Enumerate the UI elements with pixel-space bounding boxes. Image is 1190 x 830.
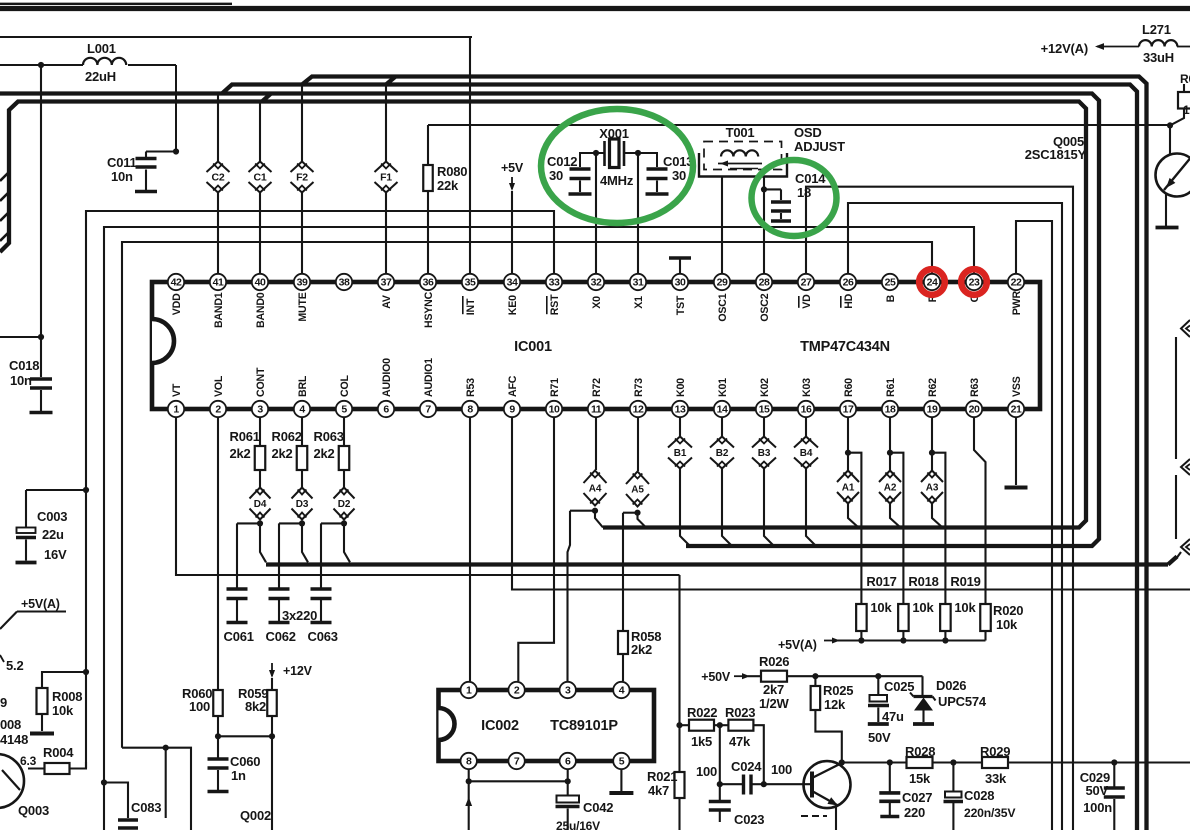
- ground IC002 pin5: [609, 769, 633, 793]
- IC001 pin 19 (R62): [924, 378, 940, 417]
- resistor R062: [272, 417, 308, 470]
- power +5V pin34: [501, 161, 524, 274]
- svg-text:B4: B4: [800, 448, 813, 459]
- capacitor C023: [709, 784, 764, 827]
- connector A2: [879, 453, 901, 528]
- power +5V(A) left: [0, 597, 66, 629]
- svg-text:18: 18: [885, 404, 896, 416]
- connector B3: [752, 417, 776, 469]
- capacitor C061: [224, 589, 254, 644]
- annotation green ellipse X001: [541, 109, 693, 223]
- svg-text:100n: 100n: [1083, 800, 1112, 815]
- connector B4: [794, 417, 818, 469]
- svg-text:6.3: 6.3: [20, 754, 37, 768]
- capacitor C024: [696, 759, 792, 795]
- wire VDD feed: [0, 62, 176, 152]
- wire Q005 base node: [1167, 122, 1173, 154]
- svg-text:7: 7: [514, 756, 520, 768]
- svg-text:TST: TST: [675, 295, 687, 315]
- svg-text:16V: 16V: [44, 547, 67, 562]
- wire B2 to bus: [722, 469, 732, 547]
- connector B1: [668, 417, 692, 469]
- svg-text:30: 30: [549, 168, 563, 183]
- svg-text:2k7: 2k7: [763, 682, 784, 697]
- svg-text:R026: R026: [759, 654, 789, 669]
- wire R net loop: [122, 242, 932, 748]
- svg-text:R061: R061: [230, 429, 260, 444]
- IC001 pin 38 (nc): [336, 274, 352, 290]
- label Q002: [240, 808, 271, 823]
- power +12V(A): [1041, 41, 1139, 56]
- svg-text:R53: R53: [465, 378, 477, 397]
- svg-text:K01: K01: [717, 378, 729, 397]
- power +5V(A) rail: [778, 637, 986, 652]
- IC001 pin 1 (VT): [168, 383, 184, 417]
- svg-text:+5V: +5V: [501, 161, 524, 175]
- svg-text:TC89101P: TC89101P: [550, 718, 618, 734]
- IC001 pin 6 (AUDIO0): [378, 358, 394, 417]
- svg-text:AUDIO1: AUDIO1: [423, 358, 435, 397]
- svg-text:1k5: 1k5: [691, 734, 712, 749]
- svg-text:8k2: 8k2: [245, 699, 266, 714]
- svg-text:R73: R73: [633, 378, 645, 397]
- annotation red circle pin 24: [919, 269, 945, 295]
- capacitor C062: [266, 589, 296, 644]
- svg-text:R008: R008: [52, 689, 82, 704]
- wire R080 to Q005 base net: [428, 124, 1170, 126]
- svg-text:22uH: 22uH: [85, 69, 116, 84]
- label OSD ADJUST: [794, 125, 845, 154]
- svg-text:19: 19: [927, 404, 938, 416]
- svg-text:B: B: [885, 294, 897, 302]
- wire node C018: [0, 65, 44, 377]
- svg-text:R63: R63: [969, 378, 981, 397]
- svg-text:C060: C060: [230, 754, 260, 769]
- resistor R020: [980, 603, 1023, 641]
- IC001 pin 8 (R53): [462, 378, 478, 417]
- svg-text:BAND0: BAND0: [255, 292, 267, 328]
- svg-text:C083: C083: [131, 800, 161, 815]
- IC001 pin 30 (TST): [672, 274, 688, 315]
- svg-text:D3: D3: [296, 499, 309, 510]
- wire node A5: [623, 510, 646, 631]
- svg-text:C003: C003: [37, 509, 67, 524]
- svg-text:CONT: CONT: [255, 367, 267, 397]
- svg-text:33: 33: [549, 277, 560, 289]
- wire off-page pin8: [465, 781, 472, 830]
- IC001 pin 7 (AUDIO1): [420, 358, 436, 417]
- capacitor C025: [868, 673, 914, 745]
- svg-text:15: 15: [759, 404, 770, 416]
- svg-text:3: 3: [565, 685, 571, 697]
- svg-text:100: 100: [189, 699, 210, 714]
- svg-text:AV: AV: [381, 295, 393, 309]
- capacitor C028: [944, 759, 1017, 830]
- wire node R022-R023: [714, 722, 728, 784]
- svg-text:24: 24: [927, 277, 938, 289]
- resistor R025: [811, 673, 854, 762]
- wire R008 node: [42, 669, 89, 688]
- wire video line: [887, 759, 907, 765]
- svg-text:T001: T001: [726, 125, 755, 140]
- IC001 pin 32 (X0): [588, 274, 604, 309]
- svg-text:K00: K00: [675, 378, 687, 397]
- wire stub: [1175, 475, 1177, 539]
- wire VD net: [806, 187, 1073, 830]
- resistor R061: [230, 417, 266, 470]
- svg-text:25: 25: [885, 277, 896, 289]
- svg-text:1: 1: [173, 404, 179, 416]
- svg-text:32: 32: [591, 277, 602, 289]
- IC001 pin 39 (MUTE): [294, 274, 310, 322]
- svg-text:1/2W: 1/2W: [759, 696, 789, 711]
- IC001 pin 23 (G): [966, 274, 982, 303]
- wire INT pin35: [469, 37, 471, 274]
- wire B4 to bus: [806, 469, 816, 547]
- wire bus hatches left edge: [0, 172, 9, 241]
- svg-text:A3: A3: [926, 483, 939, 494]
- svg-text:5: 5: [619, 756, 625, 768]
- svg-text:Q002: Q002: [240, 808, 271, 823]
- wire R63 pin20: [974, 417, 986, 604]
- svg-text:7: 7: [425, 404, 431, 416]
- svg-text:R028: R028: [905, 744, 935, 759]
- wire C2 stub: [217, 94, 219, 275]
- wire R71 pin10 to IC002 pin2: [518, 417, 554, 681]
- wire R62 pin19 node: [929, 417, 946, 604]
- svg-text:BAND1: BAND1: [213, 292, 225, 328]
- resistor R023: [725, 705, 764, 784]
- label 5.2: [0, 655, 23, 673]
- wire node D2: [321, 520, 350, 588]
- svg-text:17: 17: [843, 404, 854, 416]
- svg-text:2k2: 2k2: [272, 446, 293, 461]
- transistor Q005: [1025, 134, 1190, 226]
- svg-text:+12V(A): +12V(A): [1041, 41, 1088, 56]
- IC001 pin 13 (K00): [672, 378, 688, 417]
- svg-text:HSYNC: HSYNC: [423, 291, 435, 328]
- svg-text:10k: 10k: [870, 600, 892, 615]
- resistor R008: [30, 688, 82, 734]
- svg-text:B2: B2: [716, 448, 729, 459]
- resistor R058: [618, 629, 661, 681]
- svg-text:A5: A5: [631, 485, 644, 496]
- wire bus line C: [222, 85, 1137, 830]
- svg-text:IC002: IC002: [481, 718, 519, 734]
- svg-text:23: 23: [969, 277, 980, 289]
- svg-text:100: 100: [696, 764, 717, 779]
- IC IC002 body: [439, 690, 655, 761]
- svg-text:INT: INT: [465, 298, 477, 315]
- svg-text:MUTE: MUTE: [297, 292, 309, 321]
- svg-text:9: 9: [509, 404, 515, 416]
- label 9 008 4148: [0, 695, 28, 747]
- svg-text:4: 4: [299, 404, 305, 416]
- IC001 pin 31 (X1): [630, 274, 646, 309]
- svg-text:VDD: VDD: [171, 293, 183, 315]
- svg-text:5: 5: [341, 404, 347, 416]
- IC001 pin 18 (R61): [882, 378, 898, 417]
- wire node D4: [237, 520, 266, 588]
- IC001 pin 24 (R): [924, 274, 940, 303]
- wire RST net loop: [86, 211, 554, 768]
- svg-text:AFC: AFC: [507, 375, 519, 397]
- resistor R022: [680, 705, 718, 749]
- svg-text:37: 37: [381, 277, 392, 289]
- ground VSS pin21: [1005, 417, 1028, 488]
- wire bus line A: [0, 94, 1099, 547]
- resistor R080: [423, 125, 467, 274]
- svg-text:22: 22: [1011, 277, 1022, 289]
- wire F2 stub: [301, 85, 303, 275]
- svg-text:R022: R022: [687, 705, 717, 720]
- svg-text:D4: D4: [254, 499, 267, 510]
- svg-text:10n: 10n: [111, 169, 133, 184]
- svg-text:6: 6: [565, 756, 571, 768]
- diode D026: [910, 676, 987, 724]
- svg-text:C028: C028: [964, 788, 994, 803]
- svg-text:3: 3: [257, 404, 263, 416]
- resistor R060: [182, 686, 223, 758]
- wire B1 to bus: [680, 469, 690, 547]
- capacitor C083: [101, 779, 161, 828]
- svg-text:R062: R062: [272, 429, 302, 444]
- wire bus line D: [302, 77, 1147, 830]
- svg-text:5.2: 5.2: [6, 658, 23, 673]
- svg-text:41: 41: [213, 277, 224, 289]
- IC001 pin 33 (RST): [546, 274, 562, 315]
- IC002 pin 4: [613, 682, 629, 698]
- resistor R018: [898, 574, 939, 644]
- svg-text:2k2: 2k2: [314, 446, 335, 461]
- svg-text:29: 29: [717, 277, 728, 289]
- svg-text:BRL: BRL: [297, 375, 309, 397]
- connector F1: [375, 162, 398, 193]
- svg-text:2SC1815Y: 2SC1815Y: [1025, 147, 1087, 162]
- svg-text:C061: C061: [224, 629, 254, 644]
- svg-text:35: 35: [465, 277, 476, 289]
- svg-text:2: 2: [215, 404, 221, 416]
- wire R060-R059: [218, 733, 275, 830]
- svg-text:R0: R0: [1180, 72, 1190, 86]
- IC001 pin 41 (BAND1): [210, 274, 226, 328]
- svg-text:C012: C012: [547, 154, 577, 169]
- svg-text:C024: C024: [731, 759, 762, 774]
- svg-text:C011: C011: [107, 155, 137, 170]
- svg-text:OSC2: OSC2: [759, 293, 771, 321]
- svg-text:K02: K02: [759, 378, 771, 397]
- resistor R063: [314, 417, 350, 470]
- transistor Q004: [764, 761, 851, 830]
- IC001 pin 16 (K03): [798, 378, 814, 417]
- power +12V R059: [269, 663, 313, 690]
- svg-text:10n: 10n: [10, 373, 32, 388]
- svg-text:42: 42: [171, 277, 182, 289]
- IC001 pin 9 (AFC): [504, 375, 520, 417]
- wire stub: [1177, 552, 1181, 558]
- svg-text:R61: R61: [885, 378, 897, 397]
- wire G net loop: [104, 227, 974, 830]
- connector right edge 2: [1181, 459, 1190, 475]
- svg-text:R023: R023: [725, 705, 755, 720]
- svg-text:21: 21: [1011, 404, 1022, 416]
- IC001 pin 11 (R72): [588, 378, 604, 417]
- svg-text:8: 8: [467, 404, 473, 416]
- svg-text:X1: X1: [633, 296, 645, 309]
- svg-text:F1: F1: [380, 172, 392, 184]
- wire bus jog F1: [386, 77, 395, 85]
- capacitor C014: [761, 171, 826, 274]
- power +50V: [701, 670, 761, 684]
- svg-text:D2: D2: [338, 499, 351, 510]
- capacitor C042: [556, 781, 614, 830]
- svg-text:4k7: 4k7: [648, 783, 669, 798]
- IC001 pin 34 (KE0): [504, 274, 520, 315]
- svg-text:2k2: 2k2: [631, 642, 652, 657]
- svg-text:R004: R004: [43, 745, 74, 760]
- svg-text:2: 2: [514, 685, 520, 697]
- capacitor C003: [16, 509, 68, 563]
- inductor L001: [83, 41, 126, 84]
- wire AFC pin9: [512, 417, 1190, 590]
- wire PWR net: [1016, 221, 1052, 830]
- svg-text:12: 12: [633, 404, 644, 416]
- svg-text:1: 1: [466, 685, 472, 697]
- svg-text:C2: C2: [211, 172, 224, 184]
- capacitor C063: [308, 589, 338, 644]
- connector A5: [626, 417, 649, 507]
- connector F2: [291, 162, 314, 193]
- svg-text:2k2: 2k2: [230, 446, 251, 461]
- resistor R029: [953, 744, 1190, 786]
- svg-text:9: 9: [0, 695, 7, 710]
- wire INT net horizontal y=37: [0, 36, 472, 38]
- svg-text:22u: 22u: [42, 527, 64, 542]
- crystal X001: [593, 126, 641, 188]
- svg-text:VSS: VSS: [1011, 376, 1023, 397]
- svg-text:50V: 50V: [1085, 783, 1108, 798]
- svg-text:30: 30: [672, 168, 686, 183]
- svg-text:R018: R018: [908, 574, 938, 589]
- svg-text:C062: C062: [266, 629, 296, 644]
- svg-text:26: 26: [843, 277, 854, 289]
- IC001 pin 35 (INT): [462, 274, 478, 315]
- svg-text:220n/35V: 220n/35V: [964, 806, 1016, 820]
- svg-text:30: 30: [675, 277, 686, 289]
- svg-text:VT: VT: [171, 383, 183, 397]
- IC001 pin 20 (R63): [966, 378, 982, 417]
- svg-text:AUDIO0: AUDIO0: [381, 358, 393, 397]
- svg-text:13: 13: [675, 404, 686, 416]
- wire node A4: [568, 508, 604, 681]
- IC002 pin 8: [461, 753, 477, 769]
- connector C2: [207, 162, 230, 193]
- svg-text:10: 10: [549, 404, 560, 416]
- annotation green ellipse C014: [752, 160, 837, 236]
- connector A4: [584, 417, 607, 506]
- svg-text:K03: K03: [801, 378, 813, 397]
- IC001 pin 14 (K01): [714, 378, 730, 417]
- svg-text:KE0: KE0: [507, 295, 519, 315]
- resistor R019: [940, 574, 981, 644]
- wire R60 pin17 node: [845, 417, 862, 604]
- svg-text:008: 008: [0, 717, 21, 732]
- svg-text:X0: X0: [591, 296, 603, 309]
- svg-text:L271: L271: [1142, 22, 1171, 37]
- svg-text:47u: 47u: [882, 709, 904, 724]
- IC001 pin 22 (PWR): [1008, 274, 1024, 315]
- svg-text:1n: 1n: [231, 768, 246, 783]
- svg-text:8: 8: [466, 756, 472, 768]
- wire VOL pin2: [217, 417, 219, 690]
- svg-text:4: 4: [619, 685, 625, 697]
- svg-text:12k: 12k: [824, 697, 846, 712]
- svg-text:10k: 10k: [996, 617, 1018, 632]
- svg-text:R025: R025: [823, 683, 853, 698]
- svg-text:A2: A2: [884, 483, 897, 494]
- wire node D3: [279, 520, 308, 588]
- wire bus line B: [0, 102, 1086, 528]
- svg-text:220: 220: [904, 805, 925, 820]
- IC001 pin 5 (COL): [336, 375, 352, 418]
- svg-text:3x220: 3x220: [282, 608, 317, 623]
- svg-text:R080: R080: [437, 164, 467, 179]
- svg-text:B1: B1: [674, 448, 687, 459]
- IC001 pin 17 (R60): [840, 378, 856, 417]
- IC002 pin 5: [613, 753, 629, 769]
- wire bus jog C1: [262, 94, 271, 102]
- connector B2: [710, 417, 734, 469]
- svg-text:OSC1: OSC1: [717, 293, 729, 321]
- svg-text:C063: C063: [308, 629, 338, 644]
- wire stub: [1175, 337, 1177, 459]
- IC002 pin 2: [508, 682, 524, 698]
- svg-text:33uH: 33uH: [1143, 50, 1174, 65]
- svg-text:10k: 10k: [954, 600, 976, 615]
- svg-text:RST: RST: [549, 294, 561, 315]
- wire F1 stub: [385, 85, 387, 275]
- svg-text:100: 100: [771, 762, 792, 777]
- svg-text:OSD: OSD: [794, 125, 822, 140]
- svg-text:R017: R017: [866, 574, 896, 589]
- svg-text:31: 31: [633, 277, 644, 289]
- svg-text:A4: A4: [589, 484, 602, 495]
- IC001 pin 42 (VDD): [168, 274, 184, 315]
- svg-text:D026: D026: [936, 678, 966, 693]
- svg-text:C025: C025: [884, 679, 914, 694]
- wire collector node: [839, 759, 890, 765]
- IC001 pin 29 (OSC1): [714, 274, 730, 322]
- wire X1 pin31: [637, 153, 639, 274]
- IC001 pin 27 (VD): [798, 274, 814, 309]
- svg-text:PWR: PWR: [1011, 291, 1023, 316]
- svg-text:20: 20: [969, 404, 980, 416]
- svg-text:50V: 50V: [868, 730, 891, 745]
- svg-text:+12V: +12V: [283, 664, 313, 678]
- svg-text:R019: R019: [950, 574, 980, 589]
- wire OSC1 pin29: [721, 177, 723, 275]
- svg-text:16: 16: [801, 404, 812, 416]
- wire node C003: [26, 487, 89, 527]
- svg-text:10k: 10k: [912, 600, 934, 615]
- svg-text:VOL: VOL: [213, 375, 225, 397]
- inductor L271: [1139, 22, 1190, 65]
- svg-text:L001: L001: [87, 41, 116, 56]
- svg-text:UPC574: UPC574: [938, 694, 987, 709]
- connector right edge 1: [1181, 320, 1190, 337]
- IC001 pin 4 (BRL): [294, 375, 310, 417]
- svg-text:4148: 4148: [0, 732, 28, 747]
